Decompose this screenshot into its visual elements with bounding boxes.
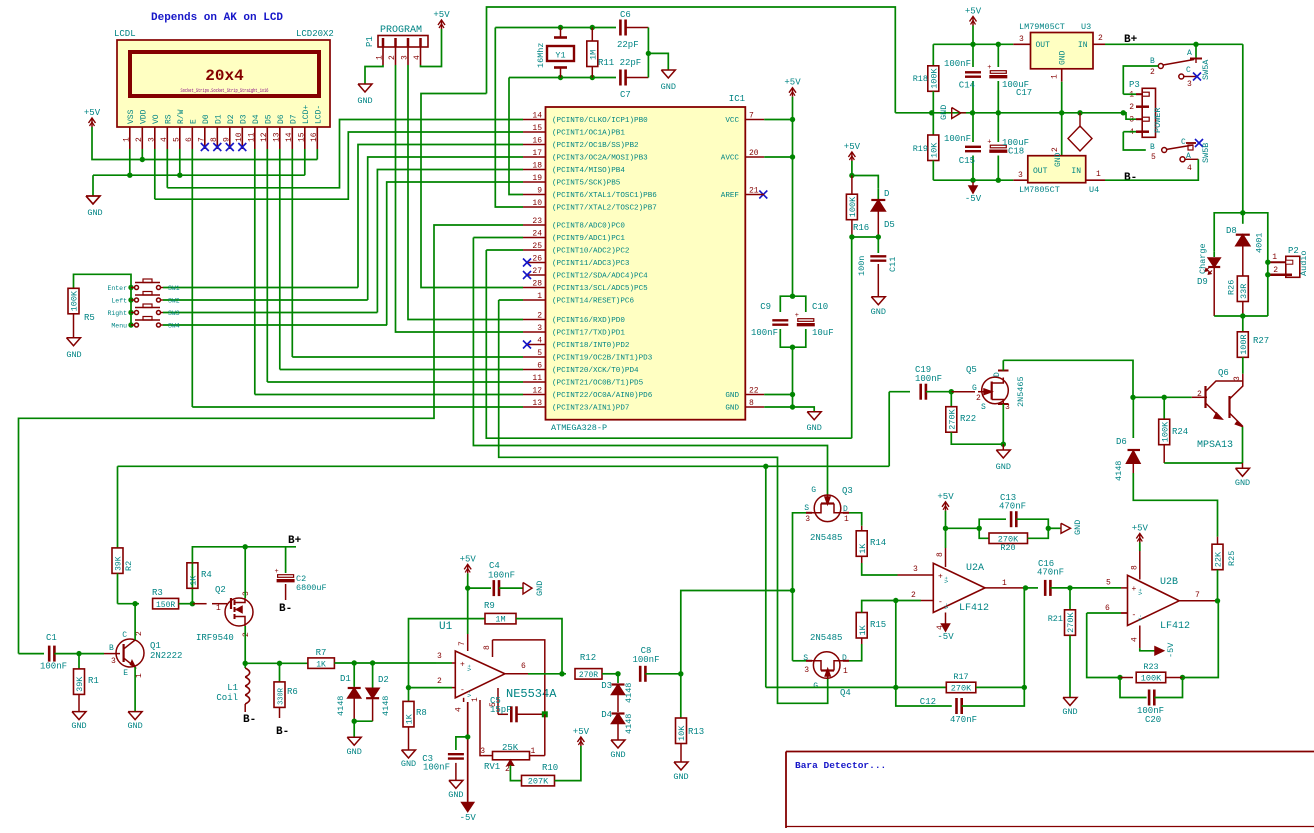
svg-text:GND: GND [725,405,739,413]
svg-text:R1: R1 [88,676,99,686]
svg-text:100nF: 100nF [944,134,971,144]
svg-text:13: 13 [532,399,542,408]
svg-text:R6: R6 [287,687,298,697]
svg-text:33R: 33R [1239,284,1249,299]
svg-text:3: 3 [147,137,156,142]
svg-text:3: 3 [1187,80,1192,89]
svg-text:16Mhz: 16Mhz [536,42,546,68]
svg-text:2: 2 [1129,103,1134,112]
svg-text:Left: Left [111,298,127,305]
svg-text:+: + [795,312,799,320]
svg-text:6: 6 [537,362,542,371]
svg-text:470nF: 470nF [999,502,1026,512]
svg-text:2: 2 [537,312,542,321]
svg-text:+: + [987,64,991,72]
svg-text:100nF: 100nF [751,328,778,338]
svg-text:24: 24 [532,230,542,239]
svg-text:6: 6 [185,137,194,142]
svg-text:D3: D3 [240,114,249,124]
svg-text:6: 6 [1105,604,1110,613]
svg-text:1K: 1K [858,543,868,554]
svg-text:Socket_Strips.Socket_Strip_Str: Socket_Strips.Socket_Strip_Straight_1x16 [181,87,269,94]
svg-text:100K: 100K [1160,421,1170,442]
svg-text:1: 1 [135,673,144,678]
svg-text:1: 1 [1002,579,1007,588]
svg-text:(PCINT2/OC1B/SS)PB2: (PCINT2/OC1B/SS)PB2 [552,142,639,150]
svg-text:C: C [1181,138,1186,147]
svg-text:-5V: -5V [1166,642,1176,658]
svg-text:R24: R24 [1172,427,1188,437]
svg-text:D: D [884,189,889,199]
svg-text:GND: GND [347,747,362,757]
svg-text:SW3: SW3 [168,310,180,317]
svg-text:OUT: OUT [1036,41,1051,50]
svg-text:LF412: LF412 [959,603,989,614]
svg-text:C18: C18 [1008,147,1024,157]
svg-text:5: 5 [172,137,181,142]
svg-text:2: 2 [135,631,144,636]
svg-text:C10: C10 [812,302,828,312]
svg-text:A: A [1186,152,1191,161]
svg-text:B-: B- [1124,172,1137,184]
svg-text:OUT: OUT [1033,167,1048,176]
svg-text:270K: 270K [1066,611,1076,632]
svg-text:B: B [1150,143,1155,152]
svg-text:(PCINT1/OC1A)PB1: (PCINT1/OC1A)PB1 [552,130,625,138]
svg-text:D2: D2 [227,114,236,124]
svg-text:IN: IN [1078,41,1088,50]
svg-text:GND: GND [1235,478,1250,488]
svg-text:GND: GND [401,759,416,769]
svg-text:R9: R9 [484,601,495,611]
svg-text:C12: C12 [920,697,936,707]
svg-text:2N5485: 2N5485 [810,633,842,643]
svg-text:39K: 39K [75,676,85,692]
svg-text:RS: RS [165,114,174,124]
svg-text:LCD20X2: LCD20X2 [296,29,334,39]
svg-text:(PCINT21/OC0B/T1)PD5: (PCINT21/OC0B/T1)PD5 [552,380,644,388]
svg-text:U3: U3 [1081,22,1091,32]
svg-text:C7: C7 [620,90,631,100]
svg-text:LM79M05CT: LM79M05CT [1019,22,1065,32]
svg-text:(PCINT12/SDA/ADC4)PC4: (PCINT12/SDA/ADC4)PC4 [552,273,648,281]
svg-text:1K: 1K [405,713,415,724]
svg-text:AREF: AREF [721,192,740,200]
svg-text:+5V: +5V [573,727,590,737]
svg-text:(PCINT6/XTAL1/TOSC1)PB6: (PCINT6/XTAL1/TOSC1)PB6 [552,192,657,200]
svg-text:+: + [987,139,991,147]
svg-text:GND: GND [1073,520,1083,535]
svg-text:3: 3 [480,747,485,756]
svg-text:14: 14 [532,112,542,121]
svg-text:A: A [1187,49,1192,58]
svg-text:D4: D4 [252,114,261,124]
svg-text:7: 7 [1195,591,1200,600]
svg-text:2: 2 [1098,34,1103,43]
svg-text:R7: R7 [316,648,327,658]
svg-text:GND: GND [1054,152,1063,167]
svg-text:270K: 270K [951,684,972,694]
svg-text:4: 4 [1131,637,1140,642]
svg-text:(PCINT20/XCK/T0)PD4: (PCINT20/XCK/T0)PD4 [552,367,639,375]
svg-text:100nF: 100nF [40,662,67,672]
svg-text:AVCC: AVCC [721,155,740,163]
svg-text:100nF: 100nF [488,571,515,581]
svg-text:2: 2 [911,591,916,600]
svg-text:207K: 207K [528,777,549,787]
svg-text:100n: 100n [857,256,867,276]
svg-text:100nF: 100nF [944,59,971,69]
svg-text:D1: D1 [215,114,224,124]
svg-text:S: S [804,504,809,513]
svg-text:R4: R4 [201,570,212,580]
svg-text:39K: 39K [115,556,124,571]
svg-text:(PCINT22/OC0A/AIN0)PD6: (PCINT22/OC0A/AIN0)PD6 [552,392,653,400]
svg-text:GND: GND [673,772,688,782]
svg-text:9: 9 [222,137,231,142]
svg-text:10: 10 [532,199,542,208]
svg-text:R12: R12 [580,653,596,663]
svg-text:3: 3 [1129,116,1134,125]
svg-text:+5V: +5V [433,10,450,20]
svg-text:Y1: Y1 [555,51,565,61]
svg-text:8: 8 [210,137,219,142]
svg-text:7: 7 [197,137,206,142]
svg-text:G: G [972,384,977,393]
svg-text:28: 28 [532,280,542,289]
svg-text:470nF: 470nF [950,715,977,725]
svg-text:R14: R14 [870,538,886,548]
svg-text:RV1: RV1 [484,762,500,772]
svg-text:5: 5 [537,349,542,358]
svg-text:18: 18 [532,162,542,171]
svg-text:3: 3 [805,515,810,524]
svg-text:26: 26 [532,255,542,264]
svg-text:(PCINT3/OC2A/MOSI)PB3: (PCINT3/OC2A/MOSI)PB3 [552,155,648,163]
svg-text:GND: GND [725,392,739,400]
svg-text:GND: GND [87,208,102,218]
svg-text:D0: D0 [202,114,211,124]
svg-text:100nF: 100nF [632,655,659,665]
svg-text:GND: GND [535,581,545,596]
svg-text:(PCINT4/MISO)PB4: (PCINT4/MISO)PB4 [552,167,625,175]
svg-text:-: - [460,686,465,695]
svg-text:2: 2 [1273,266,1278,275]
svg-text:15: 15 [532,124,542,133]
svg-text:+5V: +5V [937,492,954,502]
svg-text:22K: 22K [1214,551,1224,567]
svg-text:8: 8 [936,552,945,557]
svg-text:D3: D3 [601,681,612,691]
svg-text:D8: D8 [1226,226,1237,236]
svg-text:D1: D1 [340,674,351,684]
svg-text:R11 22pF: R11 22pF [598,58,641,68]
svg-text:LCD+: LCD+ [302,105,311,124]
svg-text:GND: GND [610,750,625,760]
svg-text:6: 6 [521,662,526,671]
svg-text:PROGRAM: PROGRAM [380,25,422,36]
svg-text:4: 4 [1187,164,1192,173]
svg-text:1K: 1K [316,660,326,669]
svg-text:VCC: VCC [725,117,739,125]
svg-text:1: 1 [376,55,385,60]
svg-text:GND: GND [939,105,949,120]
svg-text:U1: U1 [439,621,453,633]
svg-text:Right: Right [107,310,127,317]
svg-text:(PCINT14/RESET)PC6: (PCINT14/RESET)PC6 [552,298,634,306]
svg-text:SW5A: SW5A [1201,59,1211,80]
svg-text:15pF: 15pF [490,705,512,715]
svg-text:4001: 4001 [1255,233,1265,253]
svg-text:Q4: Q4 [840,688,851,698]
svg-text:+: + [1132,585,1137,594]
svg-text:Depends on AK on LCD: Depends on AK on LCD [151,12,283,24]
svg-text:3: 3 [804,666,809,675]
svg-text:1: 1 [216,604,221,613]
svg-text:VO: VO [152,114,161,124]
svg-text:R8: R8 [416,708,427,718]
svg-text:(PCINT16/RXD)PD0: (PCINT16/RXD)PD0 [552,317,625,325]
svg-text:S: S [981,403,986,412]
svg-text:8: 8 [1131,565,1140,570]
svg-text:IN: IN [1071,167,1081,176]
svg-text:1M: 1M [495,615,505,625]
svg-text:+5V: +5V [84,108,101,118]
svg-text:IC1: IC1 [729,94,745,104]
svg-text:Q5: Q5 [966,365,977,375]
svg-text:GND: GND [66,350,81,360]
svg-text:C14: C14 [959,81,975,91]
svg-text:2: 2 [1051,147,1060,152]
svg-text:D7: D7 [290,114,299,124]
svg-text:6800uF: 6800uF [296,583,327,593]
svg-text:1M: 1M [589,50,599,60]
svg-text:1: 1 [1096,170,1101,179]
svg-text:3: 3 [437,652,442,661]
svg-text:25: 25 [532,242,542,251]
svg-text:R23: R23 [1143,662,1158,672]
svg-text:B: B [1150,57,1155,66]
svg-text:20: 20 [749,149,759,158]
svg-text:R18: R18 [913,74,928,84]
svg-text:C: C [122,631,127,640]
svg-text:C9: C9 [760,302,771,312]
svg-text:NE5534A: NE5534A [506,687,557,701]
svg-text:D6: D6 [277,114,286,124]
svg-text:R5: R5 [84,313,95,323]
svg-text:GND: GND [71,721,86,731]
svg-text:2: 2 [505,765,510,774]
svg-text:(PCINT8/ADC0)PC0: (PCINT8/ADC0)PC0 [552,223,625,231]
svg-text:(PCINT13/SCL/ADC5)PC5: (PCINT13/SCL/ADC5)PC5 [552,285,648,293]
svg-text:4148: 4148 [381,696,391,716]
svg-text:(PCINT0/CLKO/ICP1)PB0: (PCINT0/CLKO/ICP1)PB0 [552,117,648,125]
svg-text:330R: 330R [278,687,286,705]
svg-text:R20: R20 [1000,543,1015,553]
svg-text:4: 4 [1129,128,1134,137]
svg-text:R16: R16 [853,223,869,233]
svg-text:B-: B- [243,714,256,726]
svg-text:SW5B: SW5B [1201,143,1211,163]
svg-text:R19: R19 [913,144,928,154]
svg-text:Bara Detector...: Bara Detector... [795,760,886,771]
svg-text:L1: L1 [227,683,238,693]
svg-text:100nF: 100nF [915,374,942,384]
svg-text:+5V: +5V [1132,524,1149,534]
svg-text:100nF: 100nF [423,763,450,773]
svg-text:C6: C6 [620,10,631,20]
svg-text:10K: 10K [930,142,940,158]
svg-text:G: G [813,682,818,691]
svg-text:1: 1 [1051,74,1060,79]
svg-text:U4: U4 [1089,185,1099,195]
svg-text:(PCINT11/ADC3)PC3: (PCINT11/ADC3)PC3 [552,260,630,268]
svg-text:VDD: VDD [140,109,149,124]
svg-text:3: 3 [1005,403,1010,412]
svg-text:11: 11 [247,132,256,142]
svg-text:100K: 100K [70,290,80,311]
svg-text:MPSA13: MPSA13 [1197,440,1233,451]
svg-text:16: 16 [310,132,319,142]
svg-text:4148: 4148 [624,714,634,734]
svg-text:1K: 1K [858,624,868,635]
svg-text:3: 3 [401,55,410,60]
svg-text:LCD-: LCD- [315,105,324,124]
svg-text:(PCINT7/XTAL2/TOSC2)PB7: (PCINT7/XTAL2/TOSC2)PB7 [552,205,657,213]
svg-text:U2A: U2A [966,563,984,574]
svg-text:Audio: Audio [1299,250,1309,276]
svg-text:(PCINT5/SCK)PB5: (PCINT5/SCK)PB5 [552,180,621,188]
svg-text:5: 5 [1106,579,1111,588]
svg-text:R3: R3 [152,588,163,598]
svg-text:7: 7 [749,112,754,121]
svg-text:150R: 150R [156,601,175,610]
svg-text:270R: 270R [579,671,598,680]
svg-text:17: 17 [532,149,542,158]
svg-text:GND: GND [127,721,142,731]
svg-text:R17: R17 [953,672,968,682]
svg-text:GND: GND [357,96,372,106]
svg-text:20x4: 20x4 [205,67,244,85]
svg-text:IRF9540: IRF9540 [196,633,234,643]
svg-text:4: 4 [160,137,169,142]
svg-text:(PCINT17/TXD)PD1: (PCINT17/TXD)PD1 [552,330,625,338]
svg-text:C15: C15 [959,156,975,166]
svg-text:D4: D4 [601,710,612,720]
svg-text:R15: R15 [870,620,886,630]
svg-text:10K: 10K [677,725,687,741]
svg-text:V-: V- [466,690,473,697]
svg-text:D9: D9 [1197,277,1208,287]
svg-text:4148: 4148 [336,696,346,716]
svg-text:GND: GND [1062,707,1077,717]
svg-text:V+: V+ [466,664,473,671]
svg-text:-5V: -5V [460,813,477,823]
svg-text:100R: 100R [1239,334,1249,354]
svg-text:2N5485: 2N5485 [810,533,842,543]
svg-text:1: 1 [844,515,849,524]
svg-text:C: C [1186,66,1191,75]
svg-text:(PCINT23/AIN1)PD7: (PCINT23/AIN1)PD7 [552,405,629,413]
svg-text:GND: GND [996,462,1011,472]
svg-text:-5V: -5V [937,632,954,642]
svg-text:1: 1 [122,137,131,142]
svg-text:SW4: SW4 [168,323,180,330]
svg-text:100K: 100K [930,67,940,88]
svg-text:Coil: Coil [216,693,238,703]
svg-text:2N5465: 2N5465 [1016,376,1026,407]
svg-text:+5V: +5V [844,142,861,152]
svg-text:B: B [109,644,114,653]
svg-text:C20: C20 [1145,715,1161,725]
svg-text:22: 22 [749,387,759,396]
svg-text:E: E [190,119,199,124]
svg-text:3: 3 [111,657,116,666]
svg-text:R26: R26 [1227,280,1237,295]
svg-text:3: 3 [913,565,918,574]
svg-text:P3: P3 [1129,80,1140,90]
svg-text:2N2222: 2N2222 [150,651,182,661]
svg-text:+5V: +5V [460,554,477,564]
svg-text:VSS: VSS [127,109,136,124]
svg-text:(PCINT19/OC2B/INT1)PD3: (PCINT19/OC2B/INT1)PD3 [552,355,653,363]
svg-text:R13: R13 [688,727,704,737]
svg-text:10: 10 [235,132,244,142]
svg-text:2: 2 [135,137,144,142]
svg-text:+: + [460,661,465,670]
svg-text:10uF: 10uF [812,328,834,338]
svg-text:9: 9 [537,187,542,196]
svg-text:(PCINT18/INT0)PD2: (PCINT18/INT0)PD2 [552,342,630,350]
svg-text:Q6: Q6 [1218,368,1229,378]
svg-text:12: 12 [532,387,542,396]
svg-text:1: 1 [1272,253,1277,262]
svg-text:5: 5 [1151,153,1156,162]
svg-text:POWER: POWER [1153,107,1163,133]
svg-text:1: 1 [537,292,542,301]
svg-text:LCDL: LCDL [114,29,136,39]
svg-text:3: 3 [1018,171,1023,180]
svg-text:LF412: LF412 [1160,621,1190,632]
svg-text:22pF: 22pF [617,40,639,50]
svg-text:8: 8 [749,399,754,408]
svg-text:V-: V- [1137,614,1144,621]
svg-text:1: 1 [471,697,480,702]
svg-text:2: 2 [976,394,981,403]
svg-text:V+: V+ [943,576,950,583]
svg-text:GND: GND [807,423,822,433]
svg-text:4: 4 [537,337,542,346]
svg-text:B-: B- [279,603,292,615]
svg-text:C11: C11 [888,257,898,272]
svg-text:100K: 100K [848,196,858,217]
svg-text:Q3: Q3 [842,486,853,496]
svg-text:4: 4 [413,55,422,60]
svg-text:3: 3 [242,591,251,596]
svg-text:7: 7 [458,641,467,646]
svg-text:270K: 270K [948,408,958,429]
svg-text:21: 21 [749,187,759,196]
svg-text:1: 1 [531,747,536,756]
svg-text:R10: R10 [542,763,558,773]
svg-text:GND: GND [661,82,676,92]
svg-text:2: 2 [242,632,251,637]
svg-text:16: 16 [532,137,542,146]
svg-text:23: 23 [532,217,542,226]
svg-text:(PCINT10/ADC2)PC2: (PCINT10/ADC2)PC2 [552,248,630,256]
svg-text:D6: D6 [1116,437,1127,447]
svg-text:1: 1 [1129,91,1134,100]
